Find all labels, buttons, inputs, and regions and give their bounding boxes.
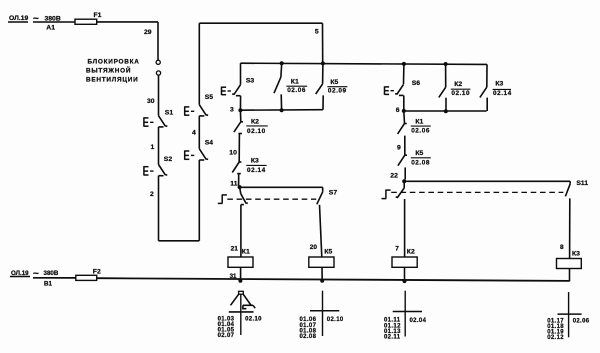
svg-text:02.06: 02.06	[573, 318, 590, 324]
svg-text:К1: К1	[415, 119, 423, 126]
svg-text:К2: К2	[454, 81, 462, 88]
svg-text:S5: S5	[205, 94, 214, 101]
svg-text:ОЛ.19: ОЛ.19	[9, 15, 29, 22]
svg-text:1: 1	[151, 144, 155, 151]
svg-text:02.09: 02.09	[328, 87, 347, 94]
svg-text:8: 8	[560, 244, 564, 251]
svg-text:3: 3	[230, 106, 234, 113]
svg-text:~: ~	[33, 13, 39, 24]
svg-text:02.07: 02.07	[218, 333, 235, 339]
svg-text:02.06: 02.06	[411, 128, 430, 135]
svg-text:К2: К2	[407, 248, 415, 255]
svg-text:К3: К3	[251, 158, 259, 165]
svg-text:К1: К1	[242, 248, 250, 255]
svg-text:30: 30	[147, 98, 155, 105]
svg-text:S4: S4	[205, 140, 214, 147]
svg-text:S1: S1	[165, 110, 174, 117]
svg-text:К5: К5	[330, 79, 338, 86]
svg-text:5: 5	[315, 29, 319, 36]
svg-text:БЛОКИРОВКА: БЛОКИРОВКА	[88, 59, 140, 66]
svg-text:К5: К5	[415, 150, 423, 157]
svg-text:К3: К3	[572, 250, 580, 257]
svg-text:02.10: 02.10	[247, 128, 266, 135]
svg-text:02.04: 02.04	[410, 318, 427, 324]
svg-text:ОЛ.19: ОЛ.19	[11, 270, 29, 277]
svg-text:29: 29	[144, 29, 152, 36]
svg-text:02.08: 02.08	[411, 159, 430, 166]
svg-text:6: 6	[396, 107, 400, 114]
svg-text:2: 2	[150, 191, 154, 198]
svg-text:22: 22	[390, 173, 398, 180]
svg-text:02.10: 02.10	[245, 316, 262, 322]
svg-text:ВЫТЯЖНОЙ: ВЫТЯЖНОЙ	[86, 66, 131, 75]
svg-text:К2: К2	[251, 118, 259, 125]
svg-text:02.06: 02.06	[287, 87, 306, 94]
svg-text:К3: К3	[495, 80, 503, 87]
svg-text:20: 20	[310, 244, 318, 251]
svg-text:S6: S6	[412, 80, 421, 87]
svg-text:9: 9	[397, 144, 401, 151]
svg-text:11: 11	[230, 180, 237, 187]
svg-text:4: 4	[192, 130, 196, 137]
svg-text:А1: А1	[46, 24, 55, 31]
svg-text:02.14: 02.14	[493, 90, 512, 97]
svg-text:К1: К1	[291, 78, 299, 85]
svg-text:380В: 380В	[44, 270, 59, 277]
svg-text:В1: В1	[44, 280, 52, 287]
svg-text:02.12: 02.12	[547, 335, 564, 341]
svg-text:10: 10	[229, 149, 237, 156]
svg-text:02.11: 02.11	[384, 334, 401, 340]
svg-text:21: 21	[231, 245, 239, 252]
svg-text:S3: S3	[246, 77, 255, 84]
svg-text:S7: S7	[329, 189, 338, 196]
svg-text:F2: F2	[93, 269, 101, 276]
svg-text:К5: К5	[324, 248, 332, 255]
svg-text:02.08: 02.08	[300, 334, 317, 340]
svg-text:S11: S11	[576, 180, 588, 187]
svg-text:380В: 380В	[45, 15, 61, 22]
svg-text:02.10: 02.10	[451, 90, 470, 97]
svg-text:02.14: 02.14	[247, 167, 266, 174]
svg-text:F1: F1	[94, 12, 102, 19]
svg-text:02.10: 02.10	[327, 317, 344, 323]
svg-text:ВЕНТИЛЯЦИИ: ВЕНТИЛЯЦИИ	[86, 77, 138, 84]
svg-text:7: 7	[395, 245, 399, 252]
svg-text:S2: S2	[164, 156, 173, 163]
